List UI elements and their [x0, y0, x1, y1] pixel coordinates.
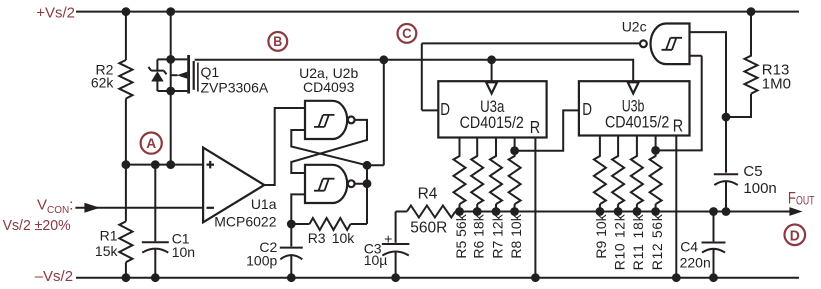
svg-text:R10 12k: R10 12k	[611, 213, 627, 270]
svg-text:CD4015/2: CD4015/2	[605, 114, 669, 132]
svg-text:R6 18k: R6 18k	[471, 213, 487, 258]
svg-text:Q1: Q1	[201, 64, 220, 80]
svg-text:R12 56k: R12 56k	[649, 213, 665, 270]
svg-text:1M0: 1M0	[762, 75, 791, 92]
svg-text:CD4015/2: CD4015/2	[460, 114, 524, 132]
svg-text:C4: C4	[680, 238, 698, 254]
svg-text:+Vs/2: +Vs/2	[36, 4, 75, 21]
svg-text:100n: 100n	[743, 180, 776, 197]
svg-text:62k: 62k	[91, 75, 115, 91]
svg-text:R: R	[673, 116, 683, 136]
svg-text:C5: C5	[743, 163, 762, 180]
svg-text:15k: 15k	[95, 243, 119, 259]
svg-text:D: D	[790, 227, 800, 244]
svg-text:R1: R1	[100, 228, 118, 244]
svg-text:OUT: OUT	[796, 196, 815, 208]
svg-text:F: F	[788, 189, 796, 208]
svg-text:220n: 220n	[680, 255, 711, 271]
svg-text:Vs/2 ±20%: Vs/2 ±20%	[3, 217, 71, 234]
svg-text:A: A	[146, 135, 156, 151]
svg-text:ZVP3306A: ZVP3306A	[201, 80, 269, 96]
svg-text:10n: 10n	[172, 244, 195, 260]
svg-text:D: D	[582, 100, 592, 119]
svg-text:R8 10k: R8 10k	[508, 213, 524, 258]
svg-text:10µ: 10µ	[364, 252, 388, 268]
svg-text:R11 18k: R11 18k	[630, 213, 646, 270]
svg-text:U2c: U2c	[622, 19, 647, 35]
svg-text:R3: R3	[308, 230, 326, 246]
svg-text:R4: R4	[418, 186, 438, 203]
svg-text:560R: 560R	[410, 219, 447, 236]
svg-text:CD4093: CD4093	[303, 79, 355, 95]
svg-text:B: B	[273, 33, 282, 49]
svg-text:U1a: U1a	[251, 196, 277, 212]
svg-text:D: D	[440, 100, 450, 119]
svg-text:R: R	[530, 117, 540, 137]
svg-text:R9 10k: R9 10k	[593, 213, 609, 258]
svg-text:R5 56k: R5 56k	[453, 213, 469, 258]
svg-text:10k: 10k	[332, 230, 356, 246]
svg-text:R7 12k: R7 12k	[489, 213, 505, 258]
svg-text:C: C	[402, 25, 412, 41]
svg-text:MCP6022: MCP6022	[214, 213, 276, 229]
svg-text:VCON:: VCON:	[37, 196, 73, 216]
svg-text:100p: 100p	[246, 252, 277, 268]
svg-text:–Vs/2: –Vs/2	[35, 268, 73, 285]
svg-text:+: +	[384, 230, 392, 246]
